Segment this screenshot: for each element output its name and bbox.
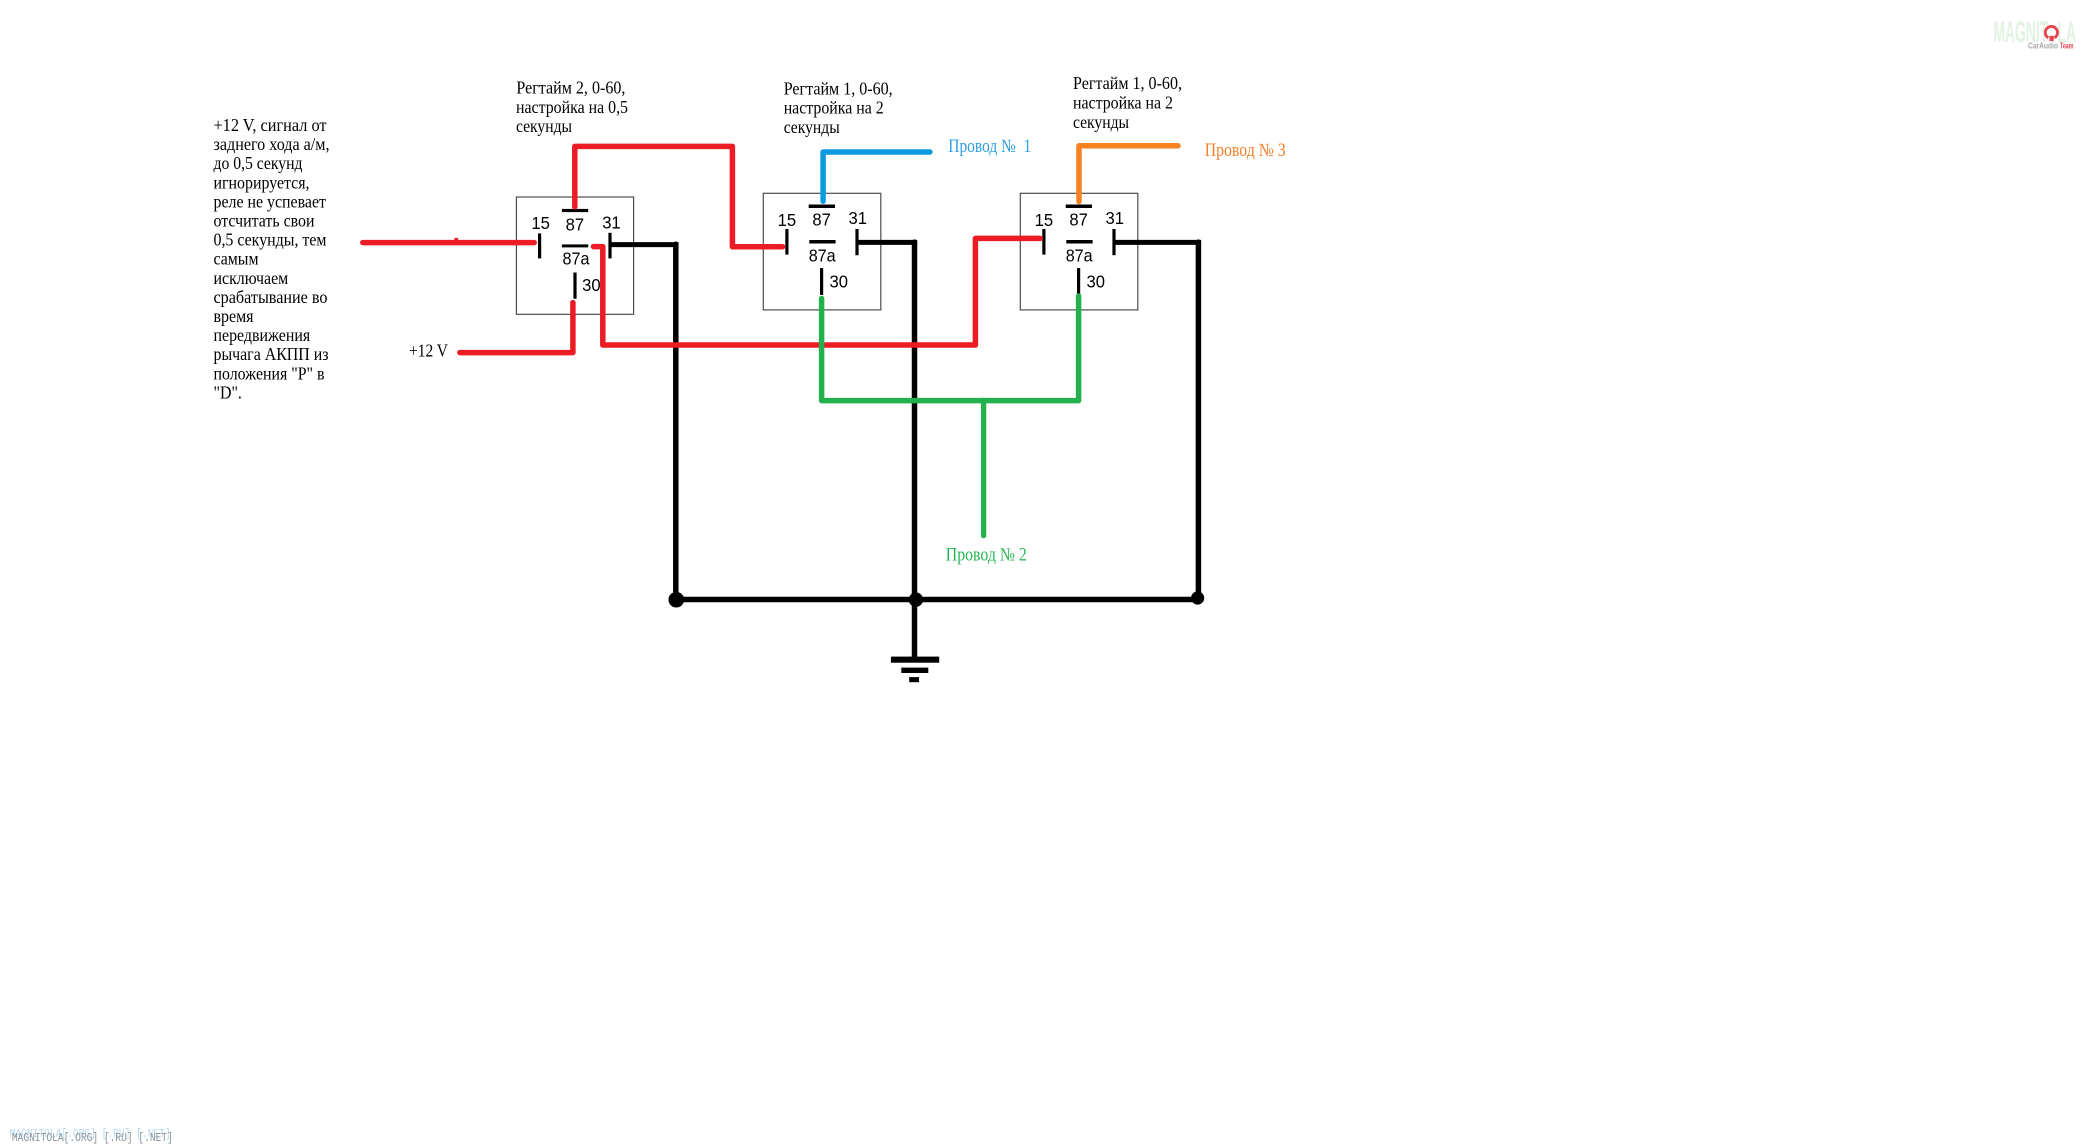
wire black: relay K2 pin 31 down to ground stem (858, 240, 917, 245)
label relay K2: Регтайм 1 (784, 78, 893, 137)
relay K3 pin 30 (1077, 268, 1080, 295)
svg-text:передвижения: передвижения (214, 325, 311, 345)
svg-text:MAGNITOLA[.ORG] [.RU] [.NET]: MAGNITOLA[.ORG] [.RU] [.NET] (12, 1132, 173, 1145)
wire orange: Провод 3 from relay K3 pin 87 (1079, 146, 1178, 202)
relay K3 pin 87 (1066, 205, 1092, 209)
svg-text:30: 30 (582, 275, 601, 295)
svg-text:87: 87 (812, 209, 831, 229)
svg-text:0,5 секунды, тем: 0,5 секунды, тем (214, 230, 327, 250)
wire red: reverse signal into relay K1 pin 15 (363, 240, 534, 246)
relay K3 box (1020, 193, 1138, 310)
svg-text:30: 30 (830, 272, 849, 292)
svg-text:Регтайм 2, 0-60,: Регтайм 2, 0-60, (516, 77, 625, 97)
svg-text:87: 87 (566, 214, 585, 234)
ground (891, 657, 939, 683)
svg-text:30: 30 (1087, 272, 1106, 292)
svg-text:Провод № 1: Провод № 1 (948, 136, 1031, 157)
relay K1 pin 87 (562, 209, 588, 212)
svg-text:Регтайм 1, 0-60,: Регтайм 1, 0-60, (784, 78, 893, 98)
relay K3 pin 31 (1112, 229, 1115, 255)
relay K2 pin 87 (809, 205, 835, 209)
svg-text:настройка на 2: настройка на 2 (1073, 92, 1173, 112)
wire red: +12 V feed to relay K1 pin 30 (460, 303, 573, 353)
wire green: relay K2 pin 30 to relay K3 pin 30 (822, 296, 1079, 401)
svg-text:положения "Р" в: положения "Р" в (214, 363, 325, 383)
svg-text:87a: 87a (809, 245, 836, 265)
svg-text:время: время (214, 306, 254, 326)
svg-text:Регтайм 1, 0-60,: Регтайм 1, 0-60, (1073, 73, 1182, 93)
svg-text:секунды: секунды (516, 116, 572, 136)
svg-text:31: 31 (1106, 208, 1125, 228)
svg-text:настройка на 2: настройка на 2 (784, 98, 884, 118)
svg-text:секунды: секунды (784, 117, 840, 137)
svg-text:Провод № 2: Провод № 2 (946, 544, 1027, 565)
svg-text:исключаем: исключаем (214, 268, 289, 288)
relay K1 pin 87a (562, 244, 588, 247)
wire black: relay K1 pin 31 to ground bus (612, 242, 679, 247)
relay K3 pin 87a (1066, 240, 1092, 244)
relay K1 pin 31 (608, 233, 611, 259)
svg-text:секунды: секунды (1073, 112, 1129, 132)
svg-text:+12 V: +12 V (409, 341, 448, 361)
relay K3 pin 15 (1042, 229, 1045, 255)
wire black: relay K3 pin 31 to ground bus (1116, 240, 1202, 245)
svg-text:игнорируется,: игнорируется, (214, 172, 310, 192)
svg-text:заднего хода а/м,: заднего хода а/м, (214, 134, 330, 154)
svg-text:31: 31 (849, 208, 868, 228)
svg-text:срабатывание во: срабатывание во (214, 287, 328, 307)
svg-text:Team: Team (2060, 41, 2074, 50)
svg-text:рычага АКПП из: рычага АКПП из (214, 344, 329, 364)
relay K1 pin 30 (573, 273, 576, 299)
wire blue: Провод 1 from relay K2 pin 87 (823, 152, 930, 201)
svg-text:до 0,5 секунд: до 0,5 секунд (214, 153, 303, 173)
wire red: relay K1 pin 87a down across and up to relay K3 pin 15 (594, 238, 1041, 345)
svg-text:87: 87 (1069, 209, 1088, 229)
relay K2 pin 31 (855, 229, 858, 255)
wire green: Провод 2 stub down (981, 400, 986, 535)
svg-text:настройка на 0,5: настройка на 0,5 (516, 97, 628, 117)
svg-text:реле не успевает: реле не успевает (214, 191, 327, 211)
svg-text:15: 15 (778, 210, 797, 230)
label relay K3: Регтайм 1 (1073, 73, 1182, 132)
relay K2 pin 30 (820, 268, 823, 295)
svg-text:15: 15 (531, 213, 550, 233)
svg-text:15: 15 (1035, 210, 1054, 230)
svg-text:самым: самым (214, 249, 259, 269)
label relay K1: Регтайм 2 (516, 77, 628, 136)
logo MAGNITOLA (1994, 15, 2077, 50)
svg-text:"D".: "D". (214, 382, 242, 402)
junction node C (1191, 591, 1204, 604)
relay K2 box (763, 193, 881, 310)
relay K2 pin 15 (785, 229, 788, 255)
svg-text:CarAudio: CarAudio (2028, 41, 2058, 50)
watermark MAGNITOLA.ORG footer (10, 1128, 173, 1145)
note: +12V reverse signal explanation text (214, 115, 330, 402)
relay K1 box (516, 197, 633, 314)
junction node B (909, 593, 923, 607)
svg-text:87a: 87a (563, 249, 590, 269)
svg-text:31: 31 (602, 213, 621, 233)
svg-text:87a: 87a (1066, 245, 1093, 265)
relay K1 pin 15 (538, 233, 541, 258)
wire black: ground bus (673, 597, 1200, 603)
svg-text:Провод № 3: Провод № 3 (1205, 140, 1286, 161)
svg-text:+12 V, сигнал от: +12 V, сигнал от (214, 115, 327, 135)
wire red: relay K1 pin 87 up over to relay K2 pin 15 (575, 146, 783, 246)
svg-text:отсчитать свои: отсчитать свои (214, 211, 315, 231)
relay K2 pin 87a (809, 240, 835, 244)
junction node A (669, 592, 685, 608)
